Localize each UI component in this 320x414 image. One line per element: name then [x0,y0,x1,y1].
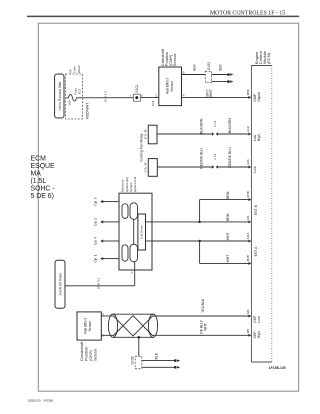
ECM pin M4B / EST A [246,246,258,265]
svg-text:(1.5L: (1.5L [31,178,47,185]
ECM pin M89 / CMP Signal [246,89,261,102]
svg-text:BLK/GRN: BLK/GRN [199,118,203,134]
svg-text:Cyl. 4: Cyl. 4 [93,237,97,245]
wire YEL/BLK to ECM M6 [153,298,249,316]
spark plug wire Cyl. 4 [93,237,119,245]
svg-text:Low: Low [253,166,257,173]
wire BRN branch to ECM M4B (EST B) [200,191,249,222]
svg-text:Low: Low [257,316,261,323]
svg-text:Hall Effect: Hall Effect [166,78,170,94]
svg-text:SOHC -: SOHC - [31,185,55,192]
svg-text:10 B 4.3: 10 B 4.3 [97,278,101,290]
ground stub lower from S108 [142,366,180,369]
wire CKP pin B to twisted pair [101,334,113,336]
supply wire to coil pin A [65,270,135,289]
svg-text:M1: M1 [246,215,250,220]
svg-text:5 DE 6): 5 DE 6) [31,193,54,200]
ECM pin M5 / CKP High [246,329,261,339]
svg-text:S101: S101 [135,85,139,93]
wire WHT branch to ECM M4B (EST A) [200,241,249,263]
svg-text:C 14: C 14 [213,120,217,126]
splice S102 (dashed connector) [205,62,211,83]
svg-text:S102: S102 [207,62,211,70]
svg-text:M4B: M4B [246,255,250,261]
spark plug wire Cyl. 2 [93,218,119,226]
spark plug wire Cyl. 3 [93,197,119,205]
svg-text:Sensor: Sensor [170,80,174,92]
svg-text:RED/DK BLU: RED/DK BLU [199,148,203,169]
svg-text:Ignition Coil: Ignition Coil [133,177,137,192]
svg-text:BRN: BRN [226,213,230,221]
coil winding 4 (secondary, cyl 1/4) [130,244,138,262]
fuse block: I/P Fuse Block (dashed) [66,65,83,119]
svg-text:BLK: BLK [155,352,159,359]
svg-text:Cyl. 3: Cyl. 3 [93,197,97,205]
svg-text:Pnk: Pnk [151,100,155,106]
svg-text:YEL/BLK: YEL/BLK [201,298,205,313]
svg-text:High: High [257,331,261,338]
svg-text:A26: A26 [246,159,250,165]
ECM: Engine Control Module box [251,50,271,362]
wire RED/WHT from fuse to CMP sensor pin C [77,91,159,119]
svg-text:M5: M5 [246,329,250,334]
ECM pin A12 / fan high [246,126,261,141]
wire GRY/WHT from CMP pin A to ECM CMP Signal [182,88,250,97]
svg-text:Signal: Signal [257,92,261,102]
svg-text:RED/DK BLU: RED/DK BLU [228,147,232,168]
caption: ECM ESQUEMA (1.5L SOHC - 5 DE 6) [31,155,56,200]
ground stub 1 from S102 (BLK) [212,63,234,75]
svg-text:M89: M89 [246,89,250,95]
svg-text:Coil Driver: Coil Driver [139,225,143,239]
CKP sensor: Crankshaft Position (CKP) Sensor, Hall Effect Sensor [77,312,104,361]
svg-text:1F15B-105: 1F15B-105 [269,366,286,370]
wire BLK from CMP pin B to splice S102 [182,63,206,74]
svg-text:C: C [155,94,157,98]
svg-text:10 B 4.2: 10 B 4.2 [103,91,107,103]
spark plug wire Cyl. 1 [93,254,119,262]
coil driver block [138,214,146,250]
svg-text:Sensor: Sensor [172,53,177,66]
svg-text:A: A [183,93,185,97]
svg-text:EST A: EST A [254,246,258,256]
svg-text:Sensor: Sensor [88,320,92,332]
svg-text:S108: S108 [131,356,135,364]
svg-text:MA: MA [31,170,42,177]
svg-text:Cyl. 2: Cyl. 2 [93,218,97,226]
junction node BRN [198,221,200,223]
svg-text:Block: Block [77,65,81,73]
svg-text:Cyl. 1: Cyl. 1 [93,254,97,262]
svg-text:EST B: EST B [254,204,258,215]
coil winding 1 (primary, cyl 2/3) [122,204,128,219]
power source: Hot At All Times [55,260,65,308]
svg-text:BRN: BRN [226,191,230,199]
CMP sensor: Camshaft Position (CMP) Sensor, Hall Effect Sensor [155,48,184,105]
relay contact box B (to motor) [144,125,157,144]
wire WHT coil to ECM M4A [152,232,249,241]
internal wire: winding 4 to supply pin A [134,262,136,270]
internal wire: winding 2 to winding 4 [133,219,135,244]
svg-text:Sensor: Sensor [93,348,98,361]
svg-text:ESQUE: ESQUE [31,163,56,170]
wire RED/DK BLU relay A to ECM A26 [157,147,249,169]
svg-text:BLK: BLK [218,63,222,70]
wire BLK/GRN relay B to ECM A12 [157,118,249,136]
shield drain wire down to S108 [138,337,140,356]
svg-text:(ECM): (ECM) [266,52,271,64]
splice S101 [130,85,144,102]
svg-text:F13: F13 [77,89,81,95]
internal wire: driver to right pin 1 [146,221,153,223]
ground stub BLK upper from S108 [142,352,180,362]
svg-text:Hot in Run and Start: Hot in Run and Start [58,81,62,110]
svg-text:BLK: BLK [193,63,197,70]
coil winding 3 (primary, cyl 1/4) [122,245,128,261]
splice S108 (dashed connector) [131,356,142,368]
ignition coil: EI System Ignition Coil box [119,177,152,270]
svg-text:B To ‘M’: B To ‘M’ [144,129,148,140]
svg-text:RED/WHT: RED/WHT [86,102,90,119]
ground stub 2 from S102 [212,80,234,83]
wire DK BLU/WHT to ECM M5 [153,320,249,335]
twisted shielded pair cable [108,314,157,337]
svg-text:BLK/GRN: BLK/GRN [228,118,232,134]
svg-text:B: B [183,70,185,74]
svg-text:WHT: WHT [226,232,230,241]
svg-text:M4A: M4A [246,232,250,239]
svg-text:WHT: WHT [226,254,230,263]
junction node on cable shield [138,336,141,339]
power source: Hot in Run and Start [55,74,64,118]
ECM pin A26 / fan low [246,159,257,172]
svg-text:Hot At All Times: Hot At All Times [58,273,62,296]
ECM pin M4A [246,232,252,243]
svg-text:M4B: M4B [246,191,250,197]
svg-text:(02DIC03 - 1F15B): (02DIC03 - 1F15B) [28,399,53,403]
ECM pin M6 / CKP Low [246,309,261,322]
svg-text:ECM: ECM [31,155,47,162]
fuse F13 10A [66,88,81,106]
wire BRN coil to ECM M1 [152,213,249,222]
internal wire: driver to right pin 2 [146,240,153,242]
wire CKP pin A to twisted pair [101,315,113,317]
svg-text:C 14: C 14 [213,153,217,159]
coil winding 2 (secondary, cyl 2/3) [130,203,138,220]
svg-text:WHT: WHT [209,88,213,97]
ECM pin M1 [246,215,252,223]
svg-text:High: High [257,134,261,141]
relay contact box A (to motor) [144,159,158,177]
ECM pin M4B / EST B [246,191,258,215]
junction node WHT [198,240,200,242]
svg-text:A To ‘M’: A To ‘M’ [144,162,148,172]
svg-text:A12: A12 [246,126,250,132]
header rule [27,15,299,17]
svg-text:M6: M6 [246,309,250,314]
schematic border frame [38,23,298,391]
svg-text:WHT: WHT [203,322,207,331]
